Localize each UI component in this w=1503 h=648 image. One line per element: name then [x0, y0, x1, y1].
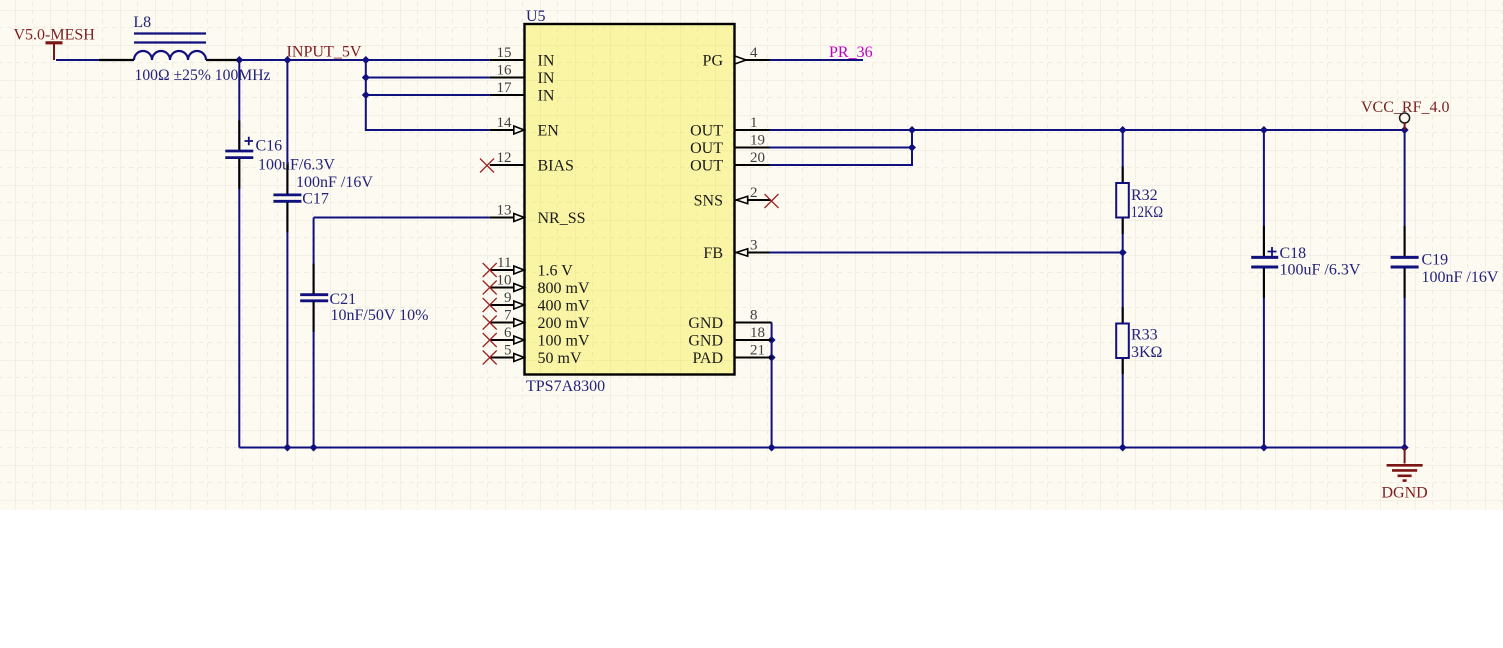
svg-text:13: 13 — [497, 203, 512, 219]
U5 pin 10 (800 mV) left — [483, 273, 590, 298]
svg-text:8: 8 — [750, 308, 758, 324]
svg-text:6: 6 — [504, 325, 512, 341]
svg-text:3: 3 — [750, 238, 758, 254]
U5 pin 12 (BIAS) left — [480, 150, 574, 175]
svg-text:C16: C16 — [256, 138, 283, 155]
junction FB / divider tap — [1119, 249, 1127, 257]
schematic sheet background — [0, 0, 1503, 510]
wire to pin 17 — [366, 94, 490, 96]
junction OUT rail / R32 — [1119, 126, 1127, 134]
svg-text:16: 16 — [497, 63, 513, 79]
svg-text:U5: U5 — [526, 8, 546, 25]
WIRES-START — [56, 60, 1405, 448]
svg-text:V5.0-MESH: V5.0-MESH — [14, 27, 96, 44]
U5 pin 6 (100 mV) left — [483, 325, 590, 350]
svg-text:10nF/50V 10%: 10nF/50V 10% — [331, 307, 429, 324]
wire PG to PR_36 — [770, 59, 864, 61]
svg-text:100nF /16V: 100nF /16V — [1422, 269, 1499, 286]
U5 pin 3 (FB) right — [703, 238, 769, 263]
svg-text:100 mV: 100 mV — [538, 333, 590, 350]
svg-text:1: 1 — [750, 115, 758, 131]
U5 pin 13 (NR_SS) left — [490, 203, 586, 228]
svg-text:GND: GND — [688, 315, 723, 332]
U5 pin 21 (PAD) right — [692, 343, 771, 368]
svg-text:100Ω ±25% 100MHz: 100Ω ±25% 100MHz — [135, 67, 271, 84]
op IC U5 body — [525, 24, 735, 375]
U5 pin 20 (OUT) right — [690, 150, 769, 175]
svg-text:4: 4 — [750, 45, 758, 61]
svg-text:100uF /6.3V: 100uF /6.3V — [1280, 262, 1361, 279]
svg-text:18: 18 — [750, 325, 765, 341]
wire vertical branch through C21 — [313, 218, 315, 448]
junction IN pin17 branch — [362, 91, 370, 99]
svg-text:2: 2 — [750, 185, 758, 201]
svg-text:400 mV: 400 mV — [538, 298, 590, 315]
junction GND pin18 — [768, 336, 776, 344]
capacitor C18 — [1251, 245, 1361, 279]
svg-text:21: 21 — [750, 343, 765, 359]
resistor R32 — [1116, 167, 1163, 235]
junction PAD pin21 — [768, 354, 776, 362]
U5 pin 16 (IN) left — [490, 63, 555, 88]
svg-text:PAD: PAD — [692, 350, 723, 367]
U5 pin 15 (IN) left — [490, 45, 555, 70]
svg-text:PR_36: PR_36 — [829, 44, 873, 61]
svg-text:100uF/6.3V: 100uF/6.3V — [258, 157, 335, 174]
U5 pin 17 (IN) left — [490, 80, 555, 105]
junction ground rail / C21 — [310, 444, 318, 452]
wire OUT pin 20 — [770, 130, 913, 165]
junction INPUT_5V / C16 branch — [235, 56, 243, 64]
junction OUT pin19 / riser — [908, 144, 916, 152]
junction IN pin16 branch — [362, 74, 370, 82]
svg-text:OUT: OUT — [690, 123, 723, 140]
junction ground rail / C19 / DGND — [1401, 444, 1409, 452]
svg-text:DGND: DGND — [1382, 485, 1428, 502]
svg-text:R32: R32 — [1131, 187, 1158, 204]
svg-text:15: 15 — [497, 45, 512, 61]
junction ground rail / C18 — [1260, 444, 1268, 452]
svg-text:EN: EN — [538, 123, 560, 140]
U5 pin 9 (400 mV) left — [483, 290, 590, 315]
svg-text:1.6 V: 1.6 V — [538, 263, 574, 280]
svg-text:11: 11 — [497, 255, 511, 271]
junction OUT rail / C18 — [1260, 126, 1268, 134]
svg-text:IN: IN — [538, 70, 555, 87]
svg-text:C17: C17 — [302, 191, 329, 208]
svg-text:OUT: OUT — [690, 140, 723, 157]
svg-text:L8: L8 — [133, 14, 151, 31]
junction ground rail / R33 — [1119, 444, 1127, 452]
wire GND pins vertical — [771, 323, 773, 448]
wire EN branch — [366, 60, 490, 130]
capacitor C21 — [300, 291, 428, 324]
wire bottom ground rail — [239, 447, 1404, 449]
ground DGND — [1382, 448, 1428, 502]
junction OUT rail / C19 / VCC_RF_4.0 — [1401, 126, 1409, 134]
svg-text:200 mV: 200 mV — [538, 315, 590, 332]
svg-text:SNS: SNS — [694, 193, 723, 210]
U5 pin 2 (SNS) right — [694, 185, 779, 210]
junction ground rail / GND riser — [768, 444, 776, 452]
capacitor C17 — [273, 174, 373, 208]
svg-text:800 mV: 800 mV — [538, 280, 590, 297]
wire OUT rail — [770, 129, 1405, 131]
svg-text:100nF /16V: 100nF /16V — [296, 174, 373, 191]
capacitor pin stubs (black) — [239, 121, 1404, 332]
svg-text:19: 19 — [750, 133, 765, 149]
wire to pin 16 — [366, 77, 490, 79]
wire NR_SS to pin 13 — [314, 217, 490, 219]
svg-text:BIAS: BIAS — [538, 158, 574, 175]
capacitor C16 — [225, 137, 335, 174]
svg-text:PG: PG — [703, 53, 724, 70]
svg-text:C21: C21 — [330, 291, 357, 308]
wire FB to divider tap — [749, 252, 1123, 254]
wire L8 right to pin15 of U5 — [237, 59, 490, 61]
svg-text:IN: IN — [538, 88, 555, 105]
U5 pin 4 (PG) right — [703, 45, 770, 70]
svg-text:14: 14 — [497, 115, 513, 131]
svg-text:C19: C19 — [1422, 252, 1449, 269]
svg-text:FB: FB — [703, 245, 723, 262]
svg-text:12KΩ: 12KΩ — [1131, 204, 1163, 221]
U5 pin 18 (GND) right — [688, 325, 771, 350]
svg-text:GND: GND — [688, 333, 723, 350]
svg-text:20: 20 — [750, 150, 765, 166]
junction INPUT_5V / C17 branch — [283, 56, 291, 64]
U5 pin 11 (1.6 V) left — [483, 255, 574, 280]
svg-text:NR_SS: NR_SS — [538, 210, 586, 227]
junction ground rail / C17 — [283, 444, 291, 452]
junction OUT rail / pin20 riser — [908, 126, 916, 134]
wire C19 branch — [1404, 130, 1406, 448]
svg-text:12: 12 — [497, 150, 512, 166]
svg-text:7: 7 — [504, 308, 512, 324]
U5 pin 7 (200 mV) left — [483, 308, 590, 333]
wire OUT pin 19 — [770, 147, 913, 149]
svg-text:INPUT_5V: INPUT_5V — [287, 43, 362, 60]
junction IN pin15 branch — [362, 56, 370, 64]
wire vertical branch to C16 — [238, 60, 240, 448]
U5 pin 14 (EN) left — [490, 115, 559, 140]
inductor L8 (ferrite bead) — [99, 34, 237, 61]
wire C18 branch — [1263, 130, 1265, 448]
svg-text:50 mV: 50 mV — [538, 350, 582, 367]
svg-text:OUT: OUT — [690, 158, 723, 175]
power port VCC_RF_4.0 — [1361, 99, 1449, 130]
svg-text:TPS7A8300: TPS7A8300 — [526, 378, 605, 395]
svg-text:C18: C18 — [1280, 245, 1307, 262]
svg-text:10: 10 — [497, 273, 512, 289]
svg-text:R33: R33 — [1131, 327, 1158, 344]
U5 pin 5 (50 mV) left — [483, 343, 582, 368]
wire vertical branch to C17 and bottom rail — [286, 60, 288, 448]
U5 pin 8 (GND) right — [688, 308, 771, 333]
svg-text:IN: IN — [538, 53, 555, 70]
power port V5.0-MESH — [14, 27, 96, 61]
U5 pin 1 (OUT) right — [690, 115, 769, 140]
resistor R33 — [1116, 307, 1162, 374]
capacitor C19 — [1391, 252, 1499, 287]
svg-text:17: 17 — [497, 80, 513, 96]
svg-text:3KΩ: 3KΩ — [1131, 344, 1163, 361]
svg-text:5: 5 — [504, 343, 512, 359]
wire R32 R33 divider branch — [1122, 130, 1124, 448]
U5 pin 19 (OUT) right — [690, 133, 769, 158]
wire input net: power port to L8 — [56, 59, 99, 61]
svg-text:9: 9 — [504, 290, 512, 306]
